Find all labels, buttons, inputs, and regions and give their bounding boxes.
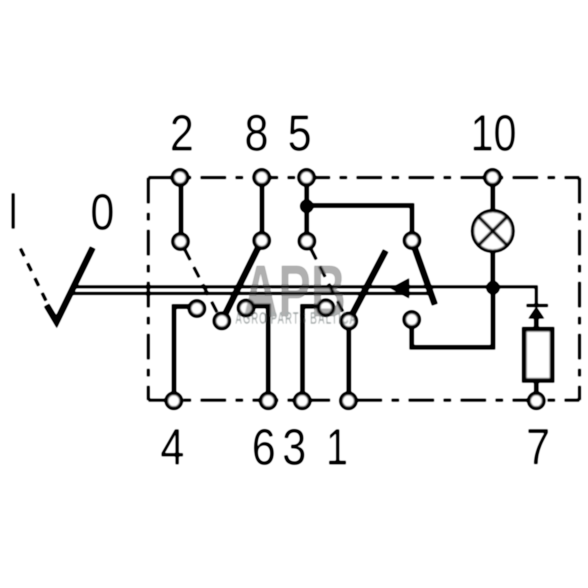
wire main bar lower line: [68, 292, 433, 295]
switch3 solid arm: [353, 251, 386, 314]
label I lever position: [11, 193, 15, 229]
fixed contact to node J loop: [404, 312, 419, 327]
lever dashed position I: [20, 248, 51, 311]
resistor R1: [524, 329, 552, 391]
fixed contact to terminal 6: [239, 301, 254, 316]
contact circle under terminal 5: [299, 234, 314, 249]
switch2 solid arm: [225, 248, 258, 314]
switch3 dashed arm: [311, 249, 344, 313]
wire terminal2 to contact: [179, 187, 184, 235]
pivot contact of switch 3: [341, 314, 356, 329]
switch enclosure dashed border: [148, 178, 579, 401]
wire pivot contact to terminal 1: [346, 329, 351, 393]
lever solid position 0: [47, 248, 93, 322]
terminal 3: [295, 393, 310, 408]
wire terminal8 to contact: [260, 187, 265, 234]
terminal 5: [299, 170, 314, 185]
wire terminal5 to node J5 to contact: [304, 187, 309, 235]
terminal 2: [173, 170, 188, 185]
diode D1: [526, 306, 548, 331]
wire contact to terminal 4: [174, 307, 189, 393]
svg-text:6: 6: [252, 419, 276, 476]
switch4 solid arm: [415, 248, 435, 305]
svg-text:10: 10: [471, 105, 517, 162]
wire node J5 corner to contact of switch 4: [307, 206, 412, 234]
wire contact loop to node J: [412, 290, 493, 347]
terminal 8: [254, 170, 269, 185]
terminal 7: [529, 393, 544, 408]
contact circle under terminal 8: [254, 233, 269, 248]
switch1 dashed arm: [185, 250, 217, 313]
wire terminal10 to lamp: [490, 187, 495, 211]
lamp L1: [473, 211, 514, 252]
arrow head on bar pointing left: [390, 278, 409, 299]
wire main bar upper line to diode corner: [71, 287, 536, 305]
terminal 6: [261, 393, 276, 408]
fixed contact to terminal 4: [189, 301, 204, 316]
watermark APB: [235, 249, 357, 332]
wire lamp to node J: [490, 252, 495, 290]
fixed contact to terminal 3: [318, 300, 333, 315]
svg-text:0: 0: [90, 184, 114, 241]
svg-text:8: 8: [245, 105, 269, 162]
contact circle under terminal 2: [173, 234, 188, 249]
contact circle of switch 4: [405, 233, 420, 248]
wire contact to terminal 3: [303, 306, 318, 392]
terminal 1: [341, 393, 356, 408]
node J junction dot: [486, 281, 500, 295]
pivot contact B of switches 1-2: [214, 313, 229, 328]
svg-text:4: 4: [160, 419, 184, 476]
terminal 4: [166, 393, 181, 408]
svg-text:3: 3: [282, 419, 306, 476]
node J5 junction dot: [300, 199, 314, 213]
svg-text:2: 2: [170, 105, 194, 162]
svg-text:1: 1: [326, 419, 348, 476]
terminal 10: [485, 170, 500, 185]
svg-text:7: 7: [526, 419, 550, 476]
svg-text:AGRO PARTS BALTICA: AGRO PARTS BALTICA: [235, 308, 357, 328]
wire contact to terminal 6: [254, 306, 269, 392]
svg-text:5: 5: [288, 105, 312, 162]
